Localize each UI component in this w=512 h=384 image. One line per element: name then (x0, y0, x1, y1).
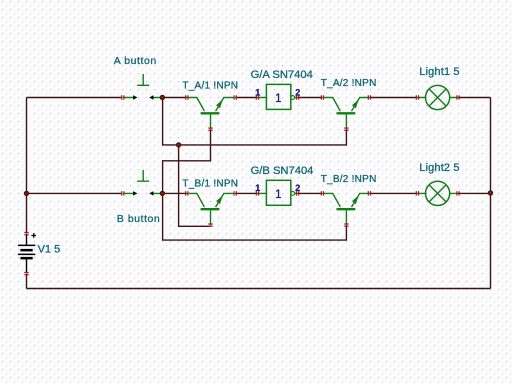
svg-text:G/A SN7404: G/A SN7404 (251, 69, 313, 81)
svg-text:1: 1 (255, 183, 260, 193)
svg-text:T_A/1 !NPN: T_A/1 !NPN (182, 80, 238, 91)
svg-text:T_B/1 !NPN: T_B/1 !NPN (182, 178, 238, 189)
svg-text:1: 1 (255, 87, 260, 97)
svg-text:A button: A button (114, 55, 157, 67)
svg-text:1: 1 (275, 189, 281, 201)
svg-text:2: 2 (295, 183, 300, 193)
svg-text:1: 1 (275, 93, 281, 105)
svg-text:G/B SN7404: G/B SN7404 (251, 165, 314, 177)
svg-text:Light1 5: Light1 5 (419, 66, 459, 78)
svg-text:T_A/2 !NPN: T_A/2 !NPN (321, 78, 377, 89)
svg-text:V1 5: V1 5 (38, 243, 61, 255)
svg-text:B button: B button (117, 213, 161, 225)
svg-text:2: 2 (295, 87, 300, 97)
svg-text:Light2 5: Light2 5 (419, 162, 459, 174)
svg-text:T_B/2 !NPN: T_B/2 !NPN (321, 174, 377, 185)
